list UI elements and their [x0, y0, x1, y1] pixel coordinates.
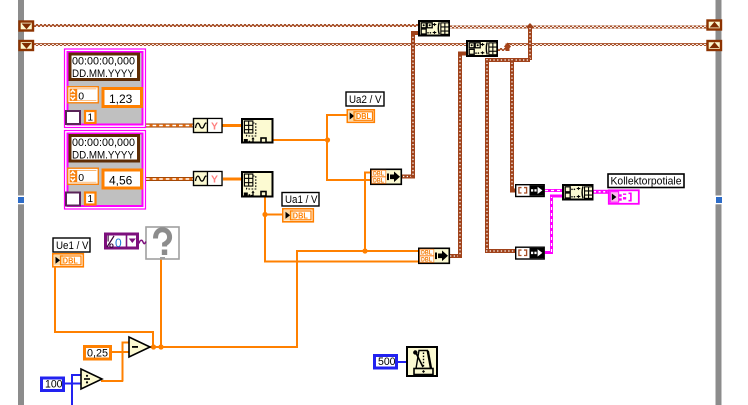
svg-text:00:00:00,000: 00:00:00,000	[72, 137, 135, 149]
svg-text:100: 100	[45, 379, 63, 391]
shift register left 2 (down arrow)	[20, 41, 34, 50]
wire: divide output to subtract top input	[101, 342, 130, 383]
junction dot on Index Array 1 output	[325, 137, 330, 142]
svg-text:Y: Y	[211, 174, 218, 186]
wire: Build Array 2 output segment	[498, 43, 707, 52]
wire: DBL 1D array, Y output 2 to Index Array 2	[223, 178, 241, 181]
svg-text:Ua1 / V: Ua1 / V	[285, 194, 318, 206]
Build Array 2	[467, 41, 497, 56]
svg-text:DBL: DBL	[356, 112, 371, 121]
svg-text:4,56: 4,56	[109, 174, 133, 188]
wire: 2D waveform array, left shift register 2 to Build Array 2	[34, 43, 466, 46]
svg-text:DBL: DBL	[421, 256, 432, 263]
svg-text:Kollektorpotiale: Kollektorpotiale	[611, 176, 682, 188]
svg-text:Ue1 / V: Ue1 / V	[56, 240, 89, 252]
numeric 1 (cluster 2)	[85, 193, 96, 206]
wire: Merge Signals 2 output up to Build Array 2 lower input	[449, 52, 467, 259]
Merge Signals 1	[371, 169, 402, 184]
svg-text:500: 500	[378, 356, 396, 368]
Convert Array To Cluster 1	[516, 185, 545, 197]
junction dot on y=251 run	[362, 248, 367, 253]
wire: vertical drop from junction at x=530	[528, 27, 532, 60]
Convert Array To Cluster 2	[516, 247, 545, 259]
Index Array 1	[242, 119, 273, 143]
numeric constant 0,25	[85, 347, 111, 360]
Merge Signals 2	[419, 248, 450, 263]
purple squiggle wire I/O to ?	[139, 240, 146, 243]
label Ua1 / V	[282, 193, 319, 207]
wire: DBL 1D array, Y output 1 to Index Array 1	[222, 124, 241, 127]
shift register left 1 (down arrow)	[20, 22, 34, 31]
svg-text:DD.MM.YYYY: DD.MM.YYYY	[72, 68, 135, 80]
while loop left border	[18, 0, 24, 405]
wire: subtract output net (to Ue1, ?, Merge 1 top, Merge 2 top)	[54, 172, 418, 349]
Index Array 2	[242, 172, 273, 197]
Build Array 1	[419, 21, 449, 36]
shift register right 1 (up arrow)	[708, 21, 722, 30]
svg-text:0: 0	[78, 172, 84, 184]
wire: waveform from cluster 1 to Get Waveform Components 1	[146, 124, 193, 128]
indicator terminal Kollektorpotiale (cluster array)	[609, 190, 639, 204]
cluster constant 1 (timestamp, 0, 1,23, boolean, 1)	[65, 49, 146, 128]
while loop right sizing handle	[716, 197, 722, 203]
junction dot on Index Array 2 output	[262, 212, 267, 217]
svg-text:DBL: DBL	[293, 211, 308, 220]
svg-text:Y: Y	[211, 121, 218, 133]
wire: Build Array 1 output to right shift register 1	[450, 26, 707, 29]
label Kollektorpotiale	[608, 174, 684, 188]
divide function	[81, 369, 102, 389]
svg-text:00:00:00,000: 00:00:00,000	[72, 56, 135, 68]
wire: waveform from cluster 2 to Get Waveform Components 2	[146, 177, 193, 181]
label Ua2 / V	[346, 92, 384, 106]
wire: Index Array 1 output net (to Ua2 terminal and Merge 1)	[273, 114, 370, 181]
numeric constant 4,56	[103, 170, 142, 188]
wire: Merge Signals 1 output up to Build Array 1 lower input	[402, 31, 419, 179]
svg-text:1: 1	[88, 113, 94, 124]
numeric constant 100	[42, 378, 64, 391]
subtract function	[129, 337, 150, 357]
timestamp display 2: 00:00:00,000 DD.MM.YYYY	[70, 136, 139, 162]
wire: 500 constant to Wait node (blue I32)	[398, 361, 406, 363]
junction dots near subtract output	[151, 344, 156, 349]
svg-text:Ua2 / V: Ua2 / V	[349, 94, 382, 106]
indicator terminal Ua2 (DBL)	[347, 110, 374, 123]
Wait Until Next ms Multiple (metronome)	[407, 347, 437, 376]
wire: Index Array 2 output net (to Ua1 terminal and Merge 2 lower input)	[264, 197, 418, 263]
wire: magenta cluster, Convert 2 to Build Array 3 bottom input	[545, 196, 562, 254]
boolean square (cluster 2)	[66, 193, 80, 206]
junction diamond on Build Array 1 output	[526, 23, 534, 31]
numeric 1 (cluster 1)	[85, 111, 96, 124]
while loop right border	[716, 0, 722, 405]
svg-text:DBL: DBL	[63, 256, 78, 265]
DAQmx physical channel constant I/O 0	[106, 234, 138, 250]
svg-text:1,23: 1,23	[109, 92, 133, 106]
wire: 100 constant to divide (blue I32)	[65, 374, 82, 405]
numeric control 0 (cluster 1)	[67, 86, 99, 104]
svg-text:0: 0	[78, 91, 84, 103]
while loop left sizing handle	[18, 197, 24, 203]
wire: vertical x=487 down to Convert 2	[485, 58, 516, 253]
label Ue1 / V	[53, 238, 90, 252]
wire: 0,25 constant to subtract bottom input	[112, 351, 129, 353]
svg-text:0,25: 0,25	[87, 348, 108, 360]
numeric control 0 (cluster 2)	[67, 168, 99, 186]
Build Array 3 (cluster array)	[563, 185, 593, 200]
indicator terminal Ue1 (DBL)	[53, 254, 84, 267]
svg-text:0: 0	[115, 236, 122, 250]
wire: 2D waveform array, left shift register 1 to Build Array 1	[34, 24, 418, 27]
shift register right 2 (up arrow)	[708, 41, 722, 50]
Get Waveform Components 2	[194, 171, 223, 186]
numeric constant 500	[375, 356, 397, 369]
wire: vertical x=512 down to Convert 1	[510, 58, 517, 193]
svg-text:DD.MM.YYYY: DD.MM.YYYY	[72, 150, 135, 162]
svg-text:DBL: DBL	[373, 177, 384, 184]
Get Waveform Components 1	[194, 118, 223, 133]
subVI with question mark icon	[146, 227, 179, 260]
numeric constant 1,23	[103, 89, 142, 107]
svg-text:1: 1	[88, 194, 94, 205]
wire: horizontal run at y=60	[485, 58, 530, 62]
wire: magenta cluster, Convert 1 to Build Array 3 top input	[545, 189, 562, 192]
indicator terminal Ua1 (DBL)	[283, 209, 314, 222]
timestamp display 1: 00:00:00,000 DD.MM.YYYY	[70, 54, 139, 80]
cluster constant 2 (timestamp, 0, 4,56, boolean, 1)	[65, 131, 146, 210]
wire: magenta cluster array, Build Array 3 to Kollektorpotiale terminal	[594, 190, 609, 194]
boolean square (cluster 1)	[66, 111, 80, 124]
